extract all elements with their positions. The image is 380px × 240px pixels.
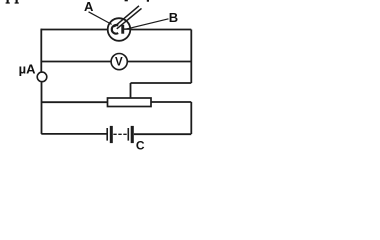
svg-text:V: V: [115, 57, 123, 69]
svg-text:µA: µA: [19, 62, 36, 77]
svg-text:A: A: [84, 0, 94, 14]
svg-text:B: B: [169, 10, 178, 25]
svg-text:C: C: [136, 139, 145, 152]
